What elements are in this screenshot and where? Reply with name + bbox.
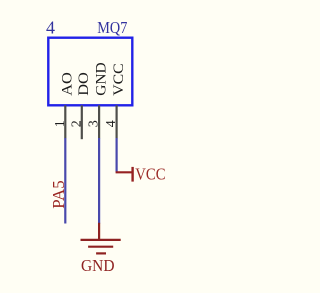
component body MQ7 sensor box (48, 38, 132, 106)
ground stem (98, 223, 100, 240)
svg-text:PA5: PA5 (49, 180, 68, 209)
svg-text:4: 4 (46, 18, 55, 38)
power port VCC bar (131, 167, 133, 182)
ground bar 1 (81, 239, 121, 241)
ground bar 3 (96, 252, 106, 254)
wire pin3 to ground (98, 138, 100, 224)
wire pin4 down (115, 138, 117, 172)
svg-text:VCC: VCC (111, 63, 127, 96)
svg-text:AO: AO (60, 72, 76, 96)
pin 4 (VCC) (115, 105, 117, 138)
pin 2 (DO) (81, 105, 83, 139)
svg-text:MQ7: MQ7 (97, 18, 127, 37)
pin 1 (AO) (64, 105, 66, 138)
svg-text:3: 3 (87, 120, 102, 127)
svg-text:1: 1 (53, 120, 68, 127)
svg-text:VCC: VCC (135, 164, 165, 183)
svg-text:GND: GND (81, 256, 115, 275)
power port VCC lead (116, 171, 133, 173)
svg-text:4: 4 (104, 120, 119, 127)
ground bar 2 (88, 246, 113, 248)
wire pin1 to PA5 (64, 138, 66, 224)
svg-text:DO: DO (76, 72, 92, 96)
svg-text:GND: GND (94, 62, 110, 96)
svg-text:2: 2 (69, 120, 84, 127)
pin 3 (GND) (98, 105, 100, 138)
